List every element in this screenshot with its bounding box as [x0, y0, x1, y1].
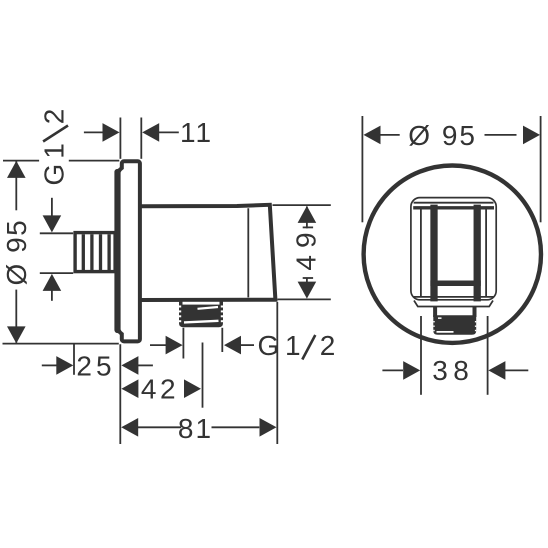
svg-text:1: 1	[285, 330, 303, 361]
svg-text:38: 38	[432, 355, 474, 386]
svg-text:2: 2	[320, 330, 338, 361]
svg-text:G: G	[39, 162, 70, 186]
svg-text:Ø 95: Ø 95	[1, 219, 32, 286]
svg-text:Ø 95: Ø 95	[408, 120, 477, 151]
svg-text:81: 81	[178, 413, 213, 444]
svg-text:49: 49	[291, 225, 322, 270]
svg-text:1: 1	[39, 141, 70, 159]
svg-text:11: 11	[180, 117, 213, 148]
svg-text:25: 25	[76, 350, 115, 381]
svg-text:2: 2	[39, 107, 70, 125]
svg-text:42: 42	[141, 374, 179, 405]
